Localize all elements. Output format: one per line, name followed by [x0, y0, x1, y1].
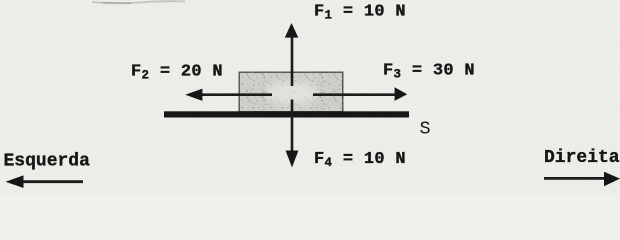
force F4 arrowhead (down)	[286, 151, 299, 168]
force F3 arrowhead	[395, 87, 408, 101]
arrow Esquerda (left)	[21, 180, 83, 183]
block lighter centre of stipple	[266, 82, 318, 104]
surface line S	[164, 111, 409, 117]
wire: vertical force line lower segment	[291, 100, 294, 152]
block (stippled body)	[239, 72, 344, 113]
faint scan smudge top edge	[92, 1, 185, 3]
force F2 arrow line (left)	[200, 93, 272, 96]
svg-text:Esquerda: Esquerda	[4, 152, 91, 172]
arrow Direita (right)	[544, 177, 606, 180]
svg-text:S: S	[420, 118, 431, 139]
wire: vertical force line upper segment	[291, 36, 294, 86]
force F1 arrowhead (up)	[285, 23, 299, 38]
svg-text:Direita: Direita	[544, 148, 620, 168]
force F2 arrowhead	[185, 89, 202, 101]
block stipple dot grain	[240, 73, 342, 111]
force F3 arrow line (right)	[313, 93, 396, 96]
